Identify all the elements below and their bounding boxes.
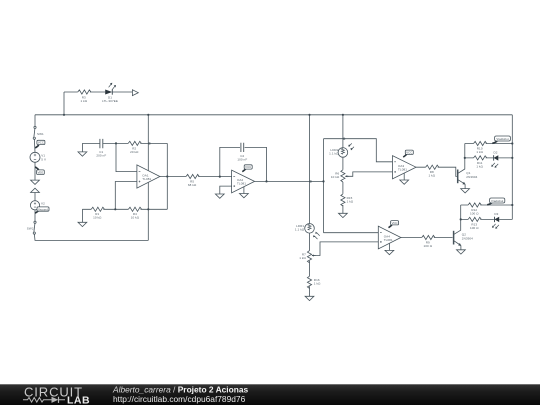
ground (stage1 bottom row) xyxy=(78,222,87,226)
wire OA2 feedback loop xyxy=(220,147,267,181)
svg-text:2N3904: 2N3904 xyxy=(462,236,473,240)
svg-text:5 V: 5 V xyxy=(41,157,46,161)
svg-text:100 Ω: 100 Ω xyxy=(470,211,479,215)
net flag Vsound (on V2 bottom) xyxy=(35,207,49,213)
net flag Vradiohut2 (Q2) xyxy=(487,198,505,205)
ground (stage1 top row) xyxy=(78,152,87,156)
ground (V1) xyxy=(31,180,40,184)
wire OA4 output to R9 to Q2 base xyxy=(401,237,453,239)
svg-text:68 kΩ: 68 kΩ xyxy=(188,183,197,187)
wire OA3 output to R8 to Q1 base xyxy=(416,167,457,176)
svg-text:10 kΩ: 10 kΩ xyxy=(331,175,340,179)
svg-text:TL081: TL081 xyxy=(237,182,246,186)
ground (Q2 emitter) xyxy=(457,250,466,254)
wire signal vertical x=148.3 xyxy=(147,115,149,241)
op-amp OA4 xyxy=(378,226,401,250)
potentiometer R7 xyxy=(299,251,315,263)
svg-text:TL081: TL081 xyxy=(384,238,393,242)
op-amp OA1 xyxy=(137,165,160,188)
svg-text:LAB: LAB xyxy=(67,395,90,405)
switch SW1 xyxy=(33,126,44,139)
resistor R3 xyxy=(78,90,91,103)
svg-text:Vradiohut: Vradiohut xyxy=(491,199,503,203)
wire to OA4 minus input xyxy=(324,232,379,234)
svg-text:1 kΩ: 1 kΩ xyxy=(476,150,483,154)
wire Q1 collector branches xyxy=(465,144,513,158)
wire OA1 plus tap xyxy=(115,182,137,210)
node Q1 collector / R11 branch xyxy=(464,157,466,159)
switch SW2 xyxy=(27,221,36,234)
svg-text:100 nF: 100 nF xyxy=(237,157,247,161)
photoresistor LDR1 xyxy=(295,224,320,240)
resistor R4 xyxy=(128,207,141,220)
svg-text:Vradiohut: Vradiohut xyxy=(496,137,508,141)
op-amp OA2 xyxy=(232,170,255,193)
svg-text:D3: D3 xyxy=(494,212,498,216)
resistor R9 xyxy=(422,235,435,248)
wire hop at LDR2 crossing comparator feed xyxy=(343,137,346,140)
wire Q2 collector xyxy=(454,205,461,234)
wire hop at signal crossing top row xyxy=(148,142,151,145)
ground (OA2 vee pin) xyxy=(240,194,249,198)
wire LDR1 chain verticals xyxy=(309,233,311,296)
svg-text:20 kΩ: 20 kΩ xyxy=(130,150,139,154)
svg-text:1 kΩ: 1 kΩ xyxy=(347,199,354,203)
LED D3 xyxy=(492,212,499,229)
node OA2 output rail / comparator feed xyxy=(322,180,324,182)
wire stage1 top row xyxy=(82,142,167,144)
wire comparator feed vertical xyxy=(323,139,325,233)
wire V1 to ground xyxy=(34,162,36,180)
wire stage1 bottom row xyxy=(82,208,167,210)
svg-text:100 Ω: 100 Ω xyxy=(470,226,479,230)
node R1-R4 plus tap xyxy=(114,208,116,210)
svg-text:SW2: SW2 xyxy=(27,226,34,230)
svg-text:1 kΩ: 1 kΩ xyxy=(428,174,435,178)
svg-text:10 kΩ: 10 kΩ xyxy=(93,216,102,220)
wire Q2 emitter to ground xyxy=(460,246,462,250)
transistor Q2 xyxy=(454,231,474,246)
svg-text:VCC: VCC xyxy=(392,221,398,225)
svg-text:http://circuitlab.com/cdpu6af7: http://circuitlab.com/cdpu6af789d76 xyxy=(113,394,246,404)
wire R6 wiper to OA3 plus xyxy=(345,172,392,176)
wire OA2 output rail xyxy=(255,180,324,182)
net flag VCC (OA2) xyxy=(242,165,252,172)
resistor R2 xyxy=(128,141,141,154)
svg-text:10 kΩ: 10 kΩ xyxy=(131,216,140,220)
node OA1 output / feedback xyxy=(166,175,168,177)
svg-text:TL081: TL081 xyxy=(142,177,151,181)
resistor R5 xyxy=(186,174,199,187)
svg-text:1.1 kΩ: 1.1 kΩ xyxy=(295,228,305,232)
wire OA1 minus tap xyxy=(116,143,137,171)
node OA2 output / C2 feedback xyxy=(265,180,267,182)
op-amp OA3 xyxy=(393,156,417,180)
net flag VCC (OA4) xyxy=(389,221,399,228)
svg-text:TL081: TL081 xyxy=(398,167,407,171)
svg-text:Vsound: Vsound xyxy=(38,207,48,211)
ground (OA4) xyxy=(385,250,394,254)
svg-text:1 kΩ: 1 kΩ xyxy=(314,282,321,286)
ground (OA3) xyxy=(400,180,409,184)
node OA2 minus / C2 feedback xyxy=(219,176,221,178)
wire LDR2 chain verticals xyxy=(342,115,344,214)
wire to OA3 minus input xyxy=(324,139,393,162)
ground (LDR2 chain) xyxy=(339,213,348,217)
svg-text:SW1: SW1 xyxy=(37,132,44,136)
LED D2 xyxy=(491,151,498,168)
output terminal xyxy=(132,90,138,96)
wire V2 to SW2 xyxy=(34,210,36,221)
wire hop at LDR1 crossing output rail xyxy=(309,180,312,183)
svg-text:VCC: VCC xyxy=(38,141,44,145)
wire LED branch vertical xyxy=(63,92,65,115)
svg-text:1 kΩ: 1 kΩ xyxy=(299,256,306,260)
node LDR2 vertical / top rail xyxy=(342,114,344,116)
node signal vertical / top rail xyxy=(147,114,149,116)
wire OA2 plus to ground xyxy=(220,186,232,194)
svg-text:2N3904: 2N3904 xyxy=(466,175,477,179)
CircuitLab logo xyxy=(23,385,90,405)
wire Q1 emitter to ground xyxy=(464,184,466,188)
svg-text:VCC: VCC xyxy=(406,151,412,155)
ground (Q1 emitter) xyxy=(461,189,470,193)
node D2 / right vertical xyxy=(511,157,513,159)
wire SW1 to V1 xyxy=(33,139,36,152)
photoresistor LDR2 xyxy=(329,143,354,157)
resistor R12 xyxy=(468,203,481,216)
svg-text:100 Ω: 100 Ω xyxy=(424,244,433,248)
node Q2 collector / R13 branch xyxy=(460,218,462,220)
svg-text:1.1 kΩ: 1.1 kΩ xyxy=(329,152,339,156)
wire right-side vertical xyxy=(511,115,513,220)
wire OA1 output to R5 to OA2 xyxy=(160,176,232,178)
net flag VCC (on V1 top) xyxy=(35,140,45,148)
net flag Vradiohut (Q1) xyxy=(492,136,510,143)
resistor R13 xyxy=(468,217,481,230)
svg-text:V2: V2 xyxy=(41,202,45,206)
resistor R11 xyxy=(474,156,487,169)
wire stage1 feedback vertical xyxy=(166,143,168,209)
node R12 / right vertical xyxy=(511,204,513,206)
ground (OA2 plus) xyxy=(215,194,224,198)
node R4 / signal vertical xyxy=(147,208,149,210)
wire mid vertical to LDR1 xyxy=(309,115,311,224)
node R10 / right vertical xyxy=(511,142,513,144)
wire Q1 collector xyxy=(458,144,465,174)
ground (LDR1 chain) xyxy=(305,296,314,300)
wire R7 wiper to OA4 plus xyxy=(312,242,378,256)
inverted ground (V2 top) xyxy=(31,188,40,192)
transistor Q1 xyxy=(458,170,478,185)
footer bar xyxy=(0,384,540,405)
voltage source V1 xyxy=(30,152,46,162)
wire top rail xyxy=(35,114,512,116)
node LED branch / top rail xyxy=(63,114,65,116)
wire left column top xyxy=(34,115,36,127)
LED D1 xyxy=(102,83,118,103)
wire SW2 down and bottom rail xyxy=(34,234,148,240)
node LDR1 vertical / top rail xyxy=(308,114,310,116)
potentiometer R6 xyxy=(331,170,349,182)
voltage source V2 xyxy=(30,201,45,210)
wire LED branch horizontals xyxy=(64,91,132,93)
svg-text:VEE: VEE xyxy=(38,171,44,175)
net flag VCC (OA3) xyxy=(403,150,413,157)
wire inverted-ground to V2 xyxy=(34,193,36,201)
capacitor C2 xyxy=(237,143,247,162)
resistor R1 xyxy=(91,207,104,220)
resistor R8 xyxy=(426,165,439,178)
svg-text:VCC: VCC xyxy=(245,165,251,169)
capacitor C1 xyxy=(96,139,106,158)
wire stage1 ground stems xyxy=(81,143,83,222)
svg-text:1 kΩ: 1 kΩ xyxy=(476,164,483,168)
svg-text:1 kΩ: 1 kΩ xyxy=(80,99,87,103)
net flag VEE (on V1 bottom) xyxy=(35,167,44,175)
wire Q2 collector branches xyxy=(461,205,513,219)
svg-text:D2: D2 xyxy=(493,151,497,155)
node C1-R2 minus tap xyxy=(115,142,117,144)
resistor R15 xyxy=(341,194,354,206)
svg-text:Alberto_carrera / Projeto 2 Ac: Alberto_carrera / Projeto 2 Acionas xyxy=(112,385,248,395)
resistor R10 xyxy=(474,141,487,154)
svg-text:200 nF: 200 nF xyxy=(96,153,106,157)
resistor R16 xyxy=(307,276,321,288)
svg-text:LTL-307EE: LTL-307EE xyxy=(102,99,118,103)
